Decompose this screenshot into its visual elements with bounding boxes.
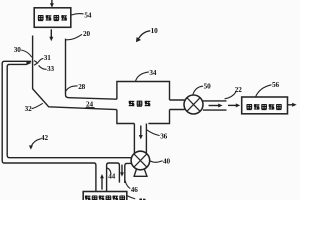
arrow down in pipe 46 <box>121 165 123 173</box>
post-treatment box 56 后处理装置 <box>242 97 288 114</box>
feed arrow into preheater <box>51 0 53 4</box>
pipe 46 branch <box>125 163 132 183</box>
exit arrowhead <box>292 103 296 107</box>
valve 40 <box>131 151 150 170</box>
duct left wall <box>33 36 117 110</box>
svg-text:46: 46 <box>131 186 138 194</box>
recirc inlet pipe (node 30) <box>2 61 94 163</box>
svg-text:22: 22 <box>235 86 242 94</box>
svg-text:42: 42 <box>41 134 48 142</box>
svg-text:32: 32 <box>25 105 32 113</box>
preheater box text 预热装置 <box>38 15 67 21</box>
dashed arrowhead <box>236 103 240 107</box>
label 36 leader <box>147 130 160 136</box>
arrow in bottom arm <box>140 126 142 136</box>
label 46 leader <box>125 179 130 188</box>
figure arrow 10 <box>138 31 150 39</box>
label 56 leader <box>256 85 272 97</box>
svg-text:34: 34 <box>149 69 156 77</box>
svg-text:50: 50 <box>204 83 211 91</box>
arrow preheater to duct <box>50 29 52 37</box>
label 20 leader <box>66 34 82 40</box>
label 30 leader <box>21 50 32 57</box>
arrow in outlet pipe <box>209 105 220 107</box>
label 54 <box>71 14 83 15</box>
right arm pipe to valve 50 <box>170 100 185 110</box>
label 22 leader <box>225 92 236 99</box>
outlet pipe 22 <box>203 101 227 110</box>
preheater box 预热装置 <box>34 8 71 28</box>
svg-text:44: 44 <box>108 173 115 181</box>
svg-text:36: 36 <box>160 132 167 140</box>
svg-text:56: 56 <box>272 81 279 89</box>
arrow up in pipe 44 <box>101 178 103 190</box>
box 34 text 除雾器 <box>129 101 151 107</box>
label 32 leader <box>32 103 43 108</box>
label 40 leader <box>150 161 163 163</box>
svg-text:40: 40 <box>163 157 170 165</box>
44 up arrowhead <box>100 174 104 178</box>
outlet pipe arrowhead <box>218 104 222 108</box>
dashed arrow to box 56 <box>228 104 237 106</box>
svg-text:54: 54 <box>84 11 91 19</box>
svg-text:31: 31 <box>44 54 51 62</box>
arrowheads <box>26 3 296 178</box>
svg-text:10: 10 <box>151 27 158 35</box>
svg-text:30: 30 <box>14 46 21 54</box>
svg-text:20: 20 <box>83 30 90 38</box>
figure-10 arrowhead <box>136 37 141 42</box>
label 33 leader <box>39 65 47 69</box>
bottom arm pipe of box 34 <box>134 124 146 154</box>
svg-text:28: 28 <box>78 83 85 91</box>
valve 50 <box>184 95 203 114</box>
pipe 44 branch <box>94 163 96 191</box>
feed arrowhead <box>50 3 54 7</box>
bottom arm arrowhead <box>139 135 143 139</box>
label 34 leader <box>136 72 149 82</box>
recirc inlet arrowhead <box>26 61 31 65</box>
42 arrowhead <box>29 145 33 149</box>
preheater-out arrowhead <box>49 37 53 41</box>
svg-text:33: 33 <box>47 65 54 73</box>
duct right wall <box>66 39 117 100</box>
funnel under valve 40 <box>133 169 147 177</box>
label 52 digits (cut off at bottom edge) <box>139 199 145 201</box>
reference numerals <box>14 11 280 193</box>
label 44 leader <box>107 168 111 174</box>
liquid source box 52 <box>83 192 127 205</box>
label 31 leader <box>38 58 43 62</box>
mist eliminator box 34 (cross shape) <box>117 82 170 124</box>
label 50 leader <box>193 86 203 95</box>
label 24 underline <box>86 107 95 109</box>
46 down arrowhead <box>120 172 124 176</box>
label 28 leader <box>65 86 77 92</box>
label 42 arrow leader <box>31 139 41 147</box>
label 52 leader (cut off) <box>127 196 135 199</box>
junction damper 31/33 <box>34 61 38 66</box>
exit arrow from box 56 <box>288 104 293 106</box>
